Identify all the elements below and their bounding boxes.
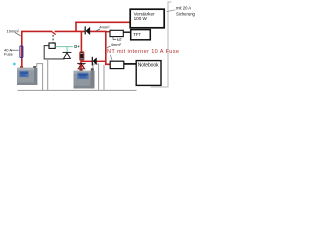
wire: NT to TFT black (123, 31, 131, 33)
battery B2 (second battery) (74, 68, 95, 88)
notebook box (136, 61, 161, 86)
amplifier box (130, 9, 164, 28)
ground wire battery 1 negative (37, 64, 43, 91)
wire: red drop to fuse F2 and battery 2 (80, 31, 82, 52)
diode D2 (92, 57, 96, 66)
svg-text:4mm²: 4mm² (111, 42, 122, 47)
wire: red top wire to amplifier (75, 21, 130, 23)
svg-text:10mm²: 10mm² (7, 29, 20, 34)
wire relay coil to ground (44, 46, 64, 59)
wire: red diode D2 to NT riser (97, 60, 106, 62)
svg-text:NT mit interner 10 A Fuse: NT mit interner 10 A Fuse (107, 49, 179, 55)
svg-text:100 W: 100 W (134, 16, 148, 21)
svg-text:mit 20 A: mit 20 A (176, 6, 191, 11)
green tick to clamp (66, 47, 68, 52)
wire: green D+ from relay (55, 46, 72, 48)
clamp terminal 2 (77, 63, 85, 68)
NT box for TFT (110, 30, 123, 36)
ground wire battery 2 negative (93, 64, 99, 90)
wire to clamp terminal (47, 59, 49, 90)
battery B1 (starter battery) (17, 66, 37, 85)
dashed link switch to relay (52, 35, 54, 43)
svg-text:Sicherung: Sicherung (176, 11, 196, 16)
wire: red riser to top wire (75, 22, 77, 31)
svg-text:D+: D+ (74, 44, 80, 49)
svg-text:Notebook: Notebook (138, 63, 159, 69)
svg-text:4mm²: 4mm² (99, 25, 110, 30)
wire: red stub to NT (TFT) box (106, 31, 111, 33)
diode D1 (85, 26, 90, 34)
cyan marker dot (13, 63, 15, 65)
clamp terminal 1 (63, 52, 72, 58)
fuse F1 40A (blue) (20, 46, 23, 58)
svg-text:Fuse: Fuse (4, 52, 14, 57)
ground rail (18, 89, 137, 91)
wire: red horizontal battery1 to switch (22, 30, 52, 33)
relay K1 coil box (49, 43, 55, 48)
svg-text:NT: NT (117, 37, 123, 42)
wire: red fuse F2 to diode D2 (81, 60, 92, 62)
ground wire NT notebook (103, 65, 105, 91)
wire: red switch to diode D1 (55, 30, 86, 32)
wire: NT to notebook black (124, 63, 137, 65)
NT box for notebook (110, 61, 124, 68)
wire: red main battery1 up (21, 31, 23, 67)
fuse F2 (red, 10A) (80, 52, 84, 61)
gray frame (cable duct outline) (151, 2, 172, 87)
switch S1 blade (51, 31, 56, 35)
wire: red diode D1 to corner, down to NT (90, 31, 110, 64)
svg-text:TFT: TFT (133, 32, 141, 37)
TFT box (131, 30, 151, 40)
